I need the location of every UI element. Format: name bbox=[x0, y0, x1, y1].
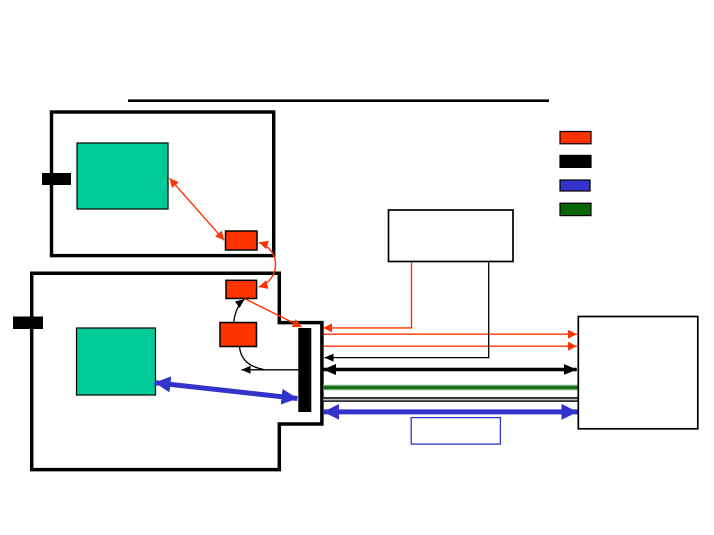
wire: black curve from red module to leftward arrow line bbox=[240, 347, 265, 370]
title underline bbox=[128, 99, 549, 102]
block: teal module in upper box bbox=[77, 143, 168, 209]
box: white control box (top middle) bbox=[389, 210, 514, 262]
bus: gray double line bbox=[323, 397, 578, 402]
legend: green swatch bbox=[560, 203, 591, 215]
arrow: blue thick double arrow connector to right box bbox=[323, 409, 577, 414]
arrow: red bus line to right box (second) bbox=[324, 345, 577, 347]
block: red module lower (lower box) bbox=[220, 323, 257, 347]
arrow: red diagonal double arrow teal-to-red (upper box) bbox=[170, 178, 225, 240]
arrow: black leftward arrow from connector bbox=[242, 369, 299, 371]
box: blue outlined label box bbox=[411, 418, 500, 445]
legend: red swatch bbox=[560, 132, 591, 144]
arrow: red diagonal from red module to connector top bbox=[245, 299, 301, 327]
box: lower-left device enclosure with connector notch bbox=[32, 273, 322, 469]
legend: blue swatch bbox=[560, 180, 590, 191]
legend: black swatch bbox=[560, 155, 591, 167]
block: red module upper (lower box) bbox=[226, 280, 257, 298]
arrow: red curved double arrow between upper and lower red modules bbox=[259, 242, 276, 287]
box: upper-left device enclosure bbox=[52, 112, 274, 256]
tab: upper box left port bbox=[42, 173, 71, 185]
arrow: black curved arrow red-lower to red-upper bbox=[234, 299, 245, 321]
block: red module in upper box bbox=[226, 231, 258, 250]
tab: lower box left port bbox=[13, 317, 43, 330]
arrow: blue thick double arrow teal module to connector bbox=[155, 383, 298, 399]
box: right device bbox=[578, 317, 698, 429]
wire: black line from control box down and left to connector bbox=[325, 263, 489, 358]
connector: black vertical bar bbox=[298, 328, 311, 412]
wire: red line from control box down and left to connector bbox=[323, 263, 412, 328]
bus: green double line bbox=[323, 385, 578, 391]
arrow: black thick double arrow connector to right box bbox=[323, 368, 577, 372]
block: teal module in lower box bbox=[77, 328, 156, 395]
arrow: red bus line to right box (first) bbox=[324, 333, 577, 335]
